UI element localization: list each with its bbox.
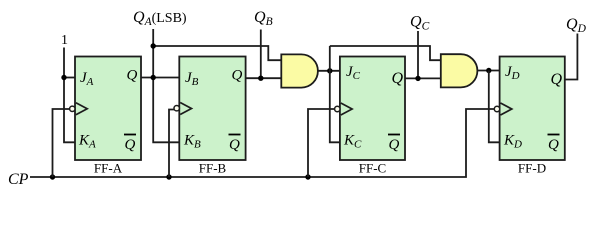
wire net QA vertical (label to K_B) [153,29,180,142]
wire AND2 output to J_D [477,70,500,72]
AND gate U1 [281,54,318,87]
svg-text:CP: CP [8,171,29,188]
node junction CP-FFB clock [166,174,171,179]
node junction CP-FFA clock [50,174,55,179]
svg-text:FF-C: FF-C [359,161,386,176]
flip-flop FF-B box [179,57,245,161]
wire CP bus [30,109,495,177]
flip-flop FF-D box [500,57,565,161]
node junction QA at Q wire [151,75,156,80]
svg-text:Q: Q [392,70,404,87]
AND gate U2 [441,54,478,87]
clock bubble FF-D [494,106,499,111]
node junction CP-FFC clock [305,174,310,179]
wire QB vertical from label [260,30,262,79]
clock triangle FF-C [341,103,352,115]
svg-text:Q: Q [232,68,243,84]
clock bubble FF-C [335,106,340,111]
svg-text:Q: Q [125,137,136,153]
node junction net-1 at J_A [61,75,66,80]
clock triangle FF-D [501,103,512,115]
clock triangle FF-A [76,103,87,115]
svg-text:Q: Q [389,137,400,153]
clock triangle FF-B [180,103,191,115]
wire J/K tie FF-D [489,71,500,143]
node junction QA at rail-1 [151,43,156,48]
svg-text:FF-B: FF-B [199,161,227,176]
clock bubble FF-A [70,106,75,111]
wire QB: FF-B Q output to AND1 bottom input [246,77,282,79]
wire rail-2 to AND2 top input [330,46,442,60]
flip-flop FF-C box [340,57,405,161]
wire FF-B clock riser [169,110,174,178]
wire FF-A clock riser [53,109,70,177]
node junction AND2 output [486,68,491,73]
wire J/K tie FF-C (rail-2 riser down to K_C) [330,46,341,142]
svg-text:FF-A: FF-A [94,161,123,176]
clock bubble FF-B [174,106,179,111]
svg-text:QA(LSB): QA(LSB) [133,9,187,28]
wire rail-1 QA to AND1 top input [153,46,282,60]
flip-flop FF-A box [75,57,141,161]
svg-text:FF-D: FF-D [518,161,546,176]
wire net-1 vertical J/K tie FF-A [64,48,76,143]
wire net-1 stub to J_A [64,77,76,79]
wire QD: FF-D Q output up to label [565,34,578,80]
wire QC vertical from label [417,31,419,78]
wire QA: FF-A Q output to J_B [141,77,180,79]
wire QC: FF-C Q output to AND2 bottom input [405,77,441,79]
wire FF-C clock riser [308,109,335,177]
node junction QC [415,76,420,81]
svg-text:1: 1 [61,33,68,48]
svg-text:Q: Q [548,137,559,153]
node junction QB [258,76,263,81]
svg-text:Q: Q [229,137,240,153]
node junction AND1 output [327,68,332,73]
wire AND1 output to J_C [318,70,340,72]
svg-text:Q: Q [551,71,563,88]
svg-text:Q: Q [127,68,138,84]
